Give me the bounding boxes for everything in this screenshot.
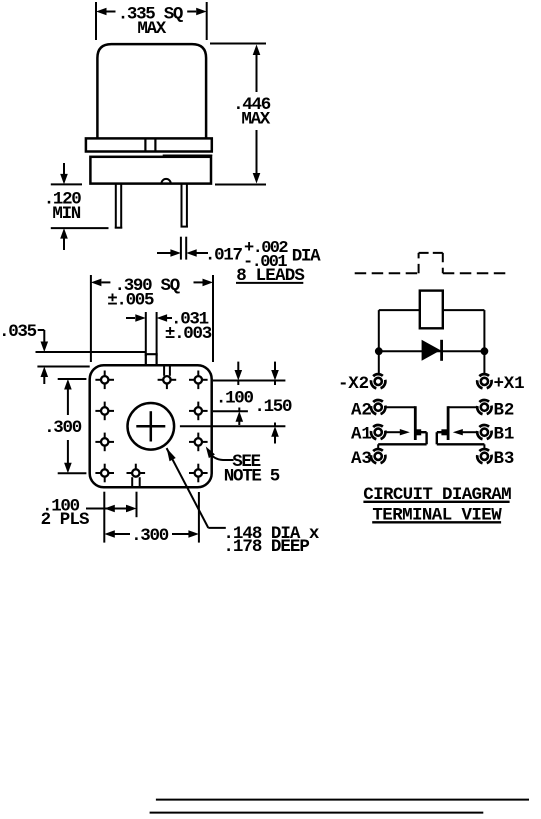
svg-text:-X2: -X2 <box>338 374 369 394</box>
svg-text:MAX: MAX <box>137 19 166 39</box>
svg-text:MAX: MAX <box>241 110 270 130</box>
svg-text:NOTE 5: NOTE 5 <box>224 467 280 487</box>
svg-text:A1: A1 <box>351 425 372 445</box>
svg-text:.035: .035 <box>0 322 37 342</box>
svg-text:B1: B1 <box>494 425 515 445</box>
svg-text:.017: .017 <box>205 246 243 266</box>
svg-text:A2: A2 <box>351 400 372 420</box>
svg-text:MIN: MIN <box>52 204 80 224</box>
svg-text:+X1: +X1 <box>494 374 525 394</box>
svg-text:.178 DEEP: .178 DEEP <box>223 537 309 557</box>
svg-text:.100: .100 <box>216 389 254 409</box>
svg-text:B2: B2 <box>494 400 515 420</box>
svg-text:2 PLS: 2 PLS <box>41 510 89 530</box>
svg-text:.300: .300 <box>44 418 82 438</box>
svg-text:B3: B3 <box>494 449 515 469</box>
svg-text:DIA: DIA <box>292 246 321 266</box>
svg-text:A3: A3 <box>351 449 372 469</box>
svg-text:±.003: ±.003 <box>165 324 212 344</box>
svg-text:±.005: ±.005 <box>107 290 154 310</box>
svg-text:.300: .300 <box>131 526 169 546</box>
svg-text:.150: .150 <box>254 397 292 417</box>
